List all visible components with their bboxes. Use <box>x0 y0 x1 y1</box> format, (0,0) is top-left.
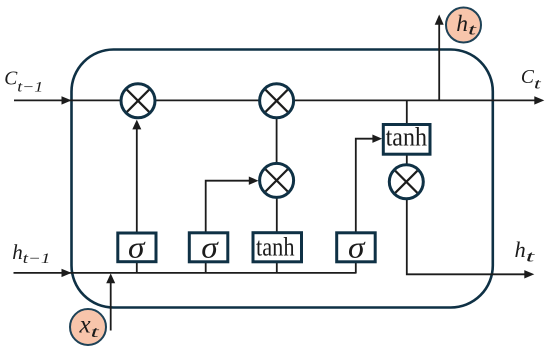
wire: sigma3 elbow arrow into tanh (output gate) <box>356 139 375 233</box>
wire: multiply3 down to tanh box (bottom) <box>276 197 278 233</box>
wire: h_t output from multiply4 down & right <box>407 198 526 274</box>
sigma box 3 (output gate) <box>337 233 376 262</box>
tanh box (candidate) <box>253 233 302 262</box>
multiply node 1 (forget) <box>121 84 155 118</box>
svg-text:σ: σ <box>348 230 366 265</box>
multiply node 4 (output gate) <box>389 165 423 199</box>
multiply node 2 (cell update add/mult) <box>260 84 294 118</box>
LSTM cell body (rounded rectangle) <box>72 50 493 308</box>
wire: cell-state line Ct-1 -> Ct <box>14 99 536 101</box>
sigma box 1 (forget gate) <box>118 233 156 262</box>
wire: multiply2 down to multiply3 <box>276 118 278 163</box>
node x_t (bottom, salmon circle) <box>70 309 106 345</box>
svg-text:tanh: tanh <box>386 122 427 152</box>
sigma box 2 (input gate) <box>189 233 228 262</box>
svg-text:σ: σ <box>201 230 219 265</box>
multiply node 3 (input gate) <box>260 163 294 197</box>
wire: hidden-state input line h_t-1 <box>14 272 356 274</box>
wire: box bottom stubs to h line <box>136 262 138 273</box>
svg-text:tanh: tanh <box>256 232 295 262</box>
wire: sigma1 up to forget-gate multiply <box>136 128 138 234</box>
arrowhead into cell (left, h line) <box>62 269 72 277</box>
wire: x_t up arrow <box>110 280 112 331</box>
svg-text:σ: σ <box>128 230 146 265</box>
wire: C line down to tanh box (top right) <box>406 100 408 124</box>
wire: tanh box down to multiply 4 <box>406 154 408 166</box>
arrowhead C_t output (right) <box>534 96 544 104</box>
wire: h_t up arrow (top right) <box>438 24 440 101</box>
wire: sigma2 elbow arrow into multiply 3 <box>206 181 251 233</box>
tanh box (cell output, top right) <box>383 125 430 155</box>
arrowhead into cell (left, C line) <box>62 96 72 104</box>
node h_t (top, salmon circle) <box>446 8 481 43</box>
